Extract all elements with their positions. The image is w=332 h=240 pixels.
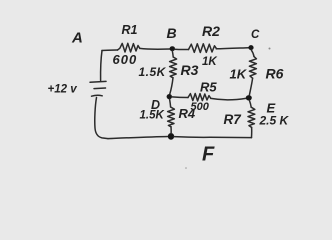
wire left branch from corner down to battery xyxy=(101,51,102,81)
label R1 xyxy=(122,23,138,37)
node C label xyxy=(251,29,260,41)
node B label xyxy=(167,25,177,41)
label R2 xyxy=(202,23,220,39)
node B xyxy=(170,46,175,51)
resistor R2 xyxy=(189,44,217,53)
node F label xyxy=(202,144,215,166)
node A label xyxy=(71,30,83,47)
svg-text:B: B xyxy=(167,25,177,41)
wire node B down to R3 xyxy=(171,51,174,57)
label R3 xyxy=(181,62,199,78)
svg-text:R1: R1 xyxy=(122,23,138,37)
battery V1 negative plate xyxy=(94,87,106,90)
wire battery to bottom-left corner xyxy=(95,98,108,139)
wire bottom from node to bottom-right corner xyxy=(174,137,252,138)
svg-text:C: C xyxy=(251,29,260,41)
value 500 (R5) xyxy=(191,101,210,113)
value 600 (R1) xyxy=(113,52,138,67)
wire R5 to node E xyxy=(211,98,247,100)
svg-text:1K: 1K xyxy=(202,56,217,68)
node D label xyxy=(151,98,160,112)
svg-text:A: A xyxy=(71,30,83,47)
value 1.5K (R3) xyxy=(139,65,167,79)
label R5 xyxy=(200,80,217,95)
label R6 xyxy=(266,66,284,82)
svg-text:+12 v: +12 v xyxy=(48,83,78,95)
wire R3 to node D xyxy=(170,78,173,94)
wire node E to R7 xyxy=(249,100,251,107)
wire R4 to bottom node xyxy=(170,127,172,134)
resistor R6 xyxy=(249,57,256,79)
wire node D to R4 xyxy=(170,99,171,107)
svg-text:R6: R6 xyxy=(266,66,284,82)
resistor R5 xyxy=(188,94,211,102)
node C xyxy=(248,45,253,50)
svg-text:600: 600 xyxy=(113,52,138,67)
resistor R4 xyxy=(168,107,175,127)
battery V1 positive plate xyxy=(90,80,106,83)
value 2.5 K (R7) xyxy=(259,114,290,128)
stray ink speck xyxy=(185,48,270,169)
wire node C down to R6 xyxy=(251,50,254,57)
svg-text:1.5K: 1.5K xyxy=(139,65,167,79)
value 1K (R6) xyxy=(230,67,248,82)
wire R2 to node C xyxy=(216,48,248,49)
node E label xyxy=(267,101,276,116)
svg-text:F: F xyxy=(202,144,215,166)
battery V1 lower dash xyxy=(92,94,103,97)
node D xyxy=(167,94,172,99)
resistor R7 xyxy=(248,107,255,127)
resistor R3 xyxy=(170,57,177,78)
svg-text:R5: R5 xyxy=(200,80,217,95)
svg-text:R7: R7 xyxy=(224,112,243,127)
value 1.5K (R4) xyxy=(140,110,165,122)
wire node B to R2 xyxy=(175,48,189,50)
wire bottom from corner to node at R4 xyxy=(108,137,168,139)
label R4 xyxy=(179,106,196,121)
value 1K (R2) xyxy=(202,56,217,68)
source label +12V xyxy=(48,83,78,95)
resistor R1 xyxy=(118,43,140,52)
wire R7 to bottom-right corner xyxy=(251,127,253,137)
svg-text:500: 500 xyxy=(191,101,210,113)
svg-text:1.5K: 1.5K xyxy=(140,110,165,122)
wire node D to R5 xyxy=(172,96,188,99)
svg-text:R2: R2 xyxy=(202,23,220,39)
node E xyxy=(246,95,252,100)
wire R6 to node E xyxy=(249,78,252,95)
wire R1 to node B xyxy=(140,47,170,50)
junction node at R4 bottom xyxy=(168,133,174,140)
svg-text:1K: 1K xyxy=(230,67,248,82)
svg-text:2.5 K: 2.5 K xyxy=(259,114,290,128)
svg-text:R3: R3 xyxy=(181,62,199,78)
wire top-left corner A to R1 xyxy=(102,49,118,52)
label R7 xyxy=(224,112,243,127)
